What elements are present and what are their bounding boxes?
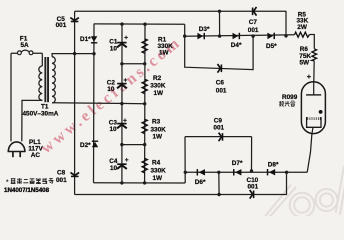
svg-text:1W: 1W bbox=[154, 90, 165, 97]
svg-text:R099: R099 bbox=[282, 94, 298, 101]
svg-text:10: 10 bbox=[110, 126, 118, 133]
svg-text:001: 001 bbox=[213, 125, 224, 132]
svg-text:D2*: D2* bbox=[80, 142, 91, 149]
svg-text:450V–30mA: 450V–30mA bbox=[23, 110, 59, 117]
svg-text:D6*: D6* bbox=[195, 179, 206, 186]
svg-text:R3: R3 bbox=[152, 119, 161, 126]
svg-text:2W: 2W bbox=[297, 24, 308, 31]
svg-text:AC: AC bbox=[31, 152, 41, 159]
svg-text:1W: 1W bbox=[153, 175, 164, 182]
svg-text:D7*: D7* bbox=[232, 160, 243, 167]
svg-text:D4*: D4* bbox=[231, 42, 242, 49]
svg-text:R2: R2 bbox=[153, 75, 162, 82]
svg-text:D1*: D1* bbox=[80, 36, 91, 43]
svg-text:330K: 330K bbox=[150, 83, 166, 90]
svg-text:1N4007/1N5408: 1N4007/1N5408 bbox=[4, 187, 50, 194]
svg-text:D3*: D3* bbox=[199, 26, 210, 33]
svg-text:001: 001 bbox=[56, 177, 67, 184]
svg-text:001: 001 bbox=[56, 22, 67, 29]
svg-text:D8*: D8* bbox=[268, 161, 279, 168]
svg-text:330K: 330K bbox=[151, 168, 167, 175]
svg-text:D5*: D5* bbox=[266, 43, 277, 50]
svg-text:1W: 1W bbox=[159, 50, 170, 57]
svg-text:1W: 1W bbox=[153, 134, 164, 141]
svg-text:10: 10 bbox=[110, 165, 118, 172]
svg-text:001: 001 bbox=[216, 87, 227, 94]
svg-text:C8: C8 bbox=[57, 170, 66, 177]
svg-text:001: 001 bbox=[248, 27, 259, 34]
svg-text:5A: 5A bbox=[21, 42, 30, 49]
svg-text:C1: C1 bbox=[109, 38, 118, 45]
svg-text:5W: 5W bbox=[300, 59, 311, 66]
svg-text:10: 10 bbox=[110, 45, 118, 52]
svg-text:001: 001 bbox=[248, 183, 259, 190]
svg-text:10: 10 bbox=[107, 86, 115, 93]
svg-text:330K: 330K bbox=[151, 127, 167, 134]
svg-text:R4: R4 bbox=[152, 160, 161, 167]
svg-text:C6: C6 bbox=[216, 79, 225, 86]
svg-text:C7: C7 bbox=[249, 19, 258, 26]
